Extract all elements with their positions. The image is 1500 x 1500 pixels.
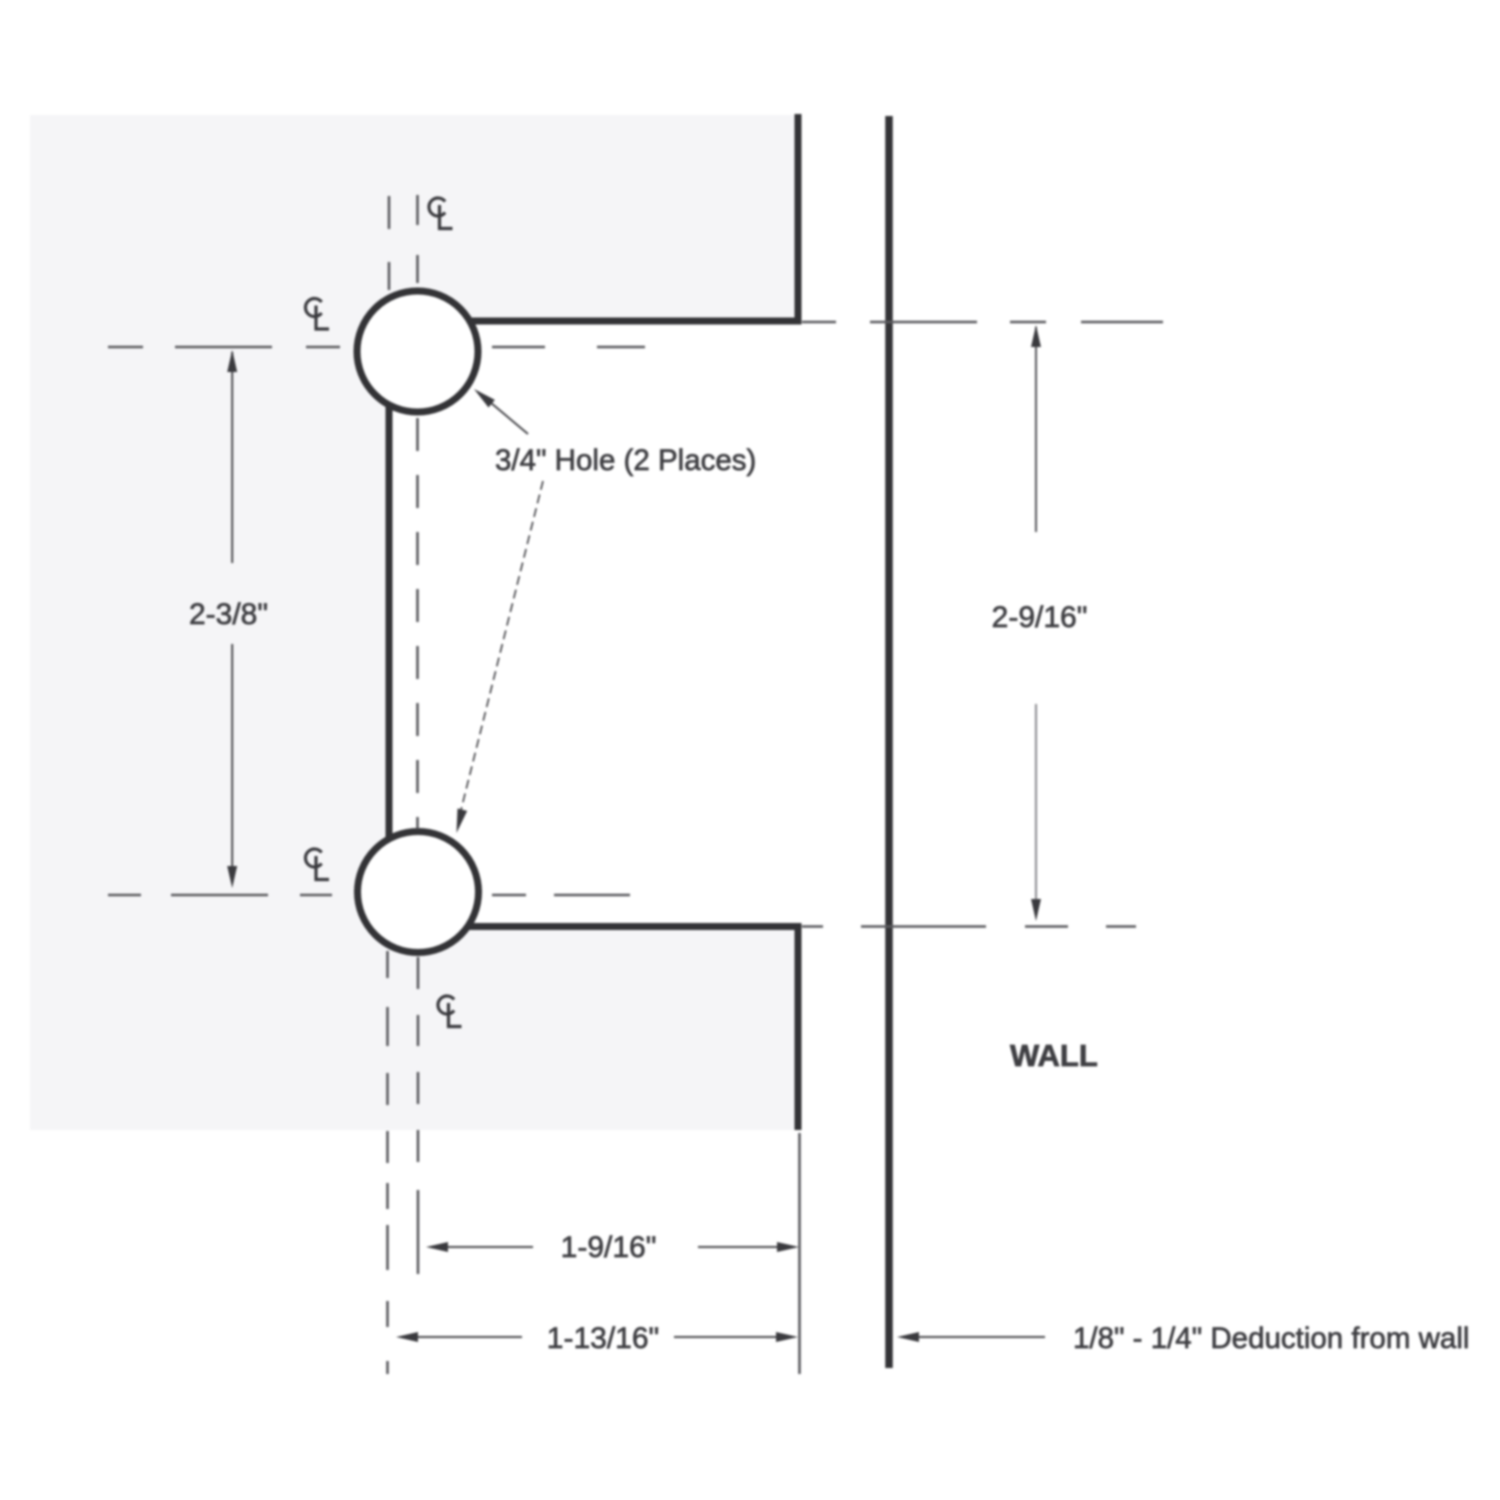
dimension 1-9/16 <box>430 1246 777 1248</box>
hole centerline extension solid at dim row <box>417 1190 420 1274</box>
centerline symbol hole2 below <box>438 996 462 1027</box>
glass edge right top <box>472 114 798 321</box>
glass edge right bottom <box>466 927 798 1131</box>
dimension 2-9/16 <box>1035 327 1037 899</box>
centerline symbol top <box>429 198 453 229</box>
notch left edge <box>386 406 393 838</box>
leader to hole 2 <box>460 481 543 814</box>
hole centerline dashes above hole1 <box>416 195 419 283</box>
notch top extension line to wall <box>802 321 1163 324</box>
hole 2 <box>358 832 479 953</box>
centerline dashes hole2 horizontal <box>108 894 630 897</box>
wall line <box>885 116 893 1368</box>
edge extension dashes above hole1 <box>388 196 391 290</box>
glass panel <box>30 115 800 1130</box>
notch bottom extension line to wall <box>802 925 1136 928</box>
dimension 1-13/16 <box>418 1336 776 1338</box>
svg-text:1/8" - 1/4" Deduction from wal: 1/8" - 1/4" Deduction from wall <box>1073 1322 1469 1355</box>
svg-text:2-9/16": 2-9/16" <box>992 601 1088 634</box>
hole centerline dashed between holes <box>416 418 419 829</box>
svg-text:3/4" Hole (2 Places): 3/4" Hole (2 Places) <box>495 444 756 477</box>
hole centerline dashes below hole2 <box>417 957 420 1162</box>
leader to hole 1 <box>478 392 528 434</box>
centerline symbol hole1 left <box>305 299 329 330</box>
svg-text:WALL: WALL <box>1010 1038 1098 1073</box>
glass edge extension below panel <box>798 1133 801 1374</box>
centerline dashes hole1 horizontal <box>108 346 645 349</box>
svg-text:1-9/16": 1-9/16" <box>561 1231 657 1264</box>
notch cutout <box>389 321 801 927</box>
edge extension dashes below hole2 <box>386 951 389 1374</box>
deduction dimension <box>919 1336 1045 1338</box>
svg-text:2-3/8": 2-3/8" <box>189 598 268 631</box>
hole 1 <box>357 291 478 412</box>
dimension 2-3/8 <box>231 352 233 866</box>
centerline symbol hole2 left <box>305 849 329 880</box>
svg-text:1-13/16": 1-13/16" <box>547 1322 659 1355</box>
